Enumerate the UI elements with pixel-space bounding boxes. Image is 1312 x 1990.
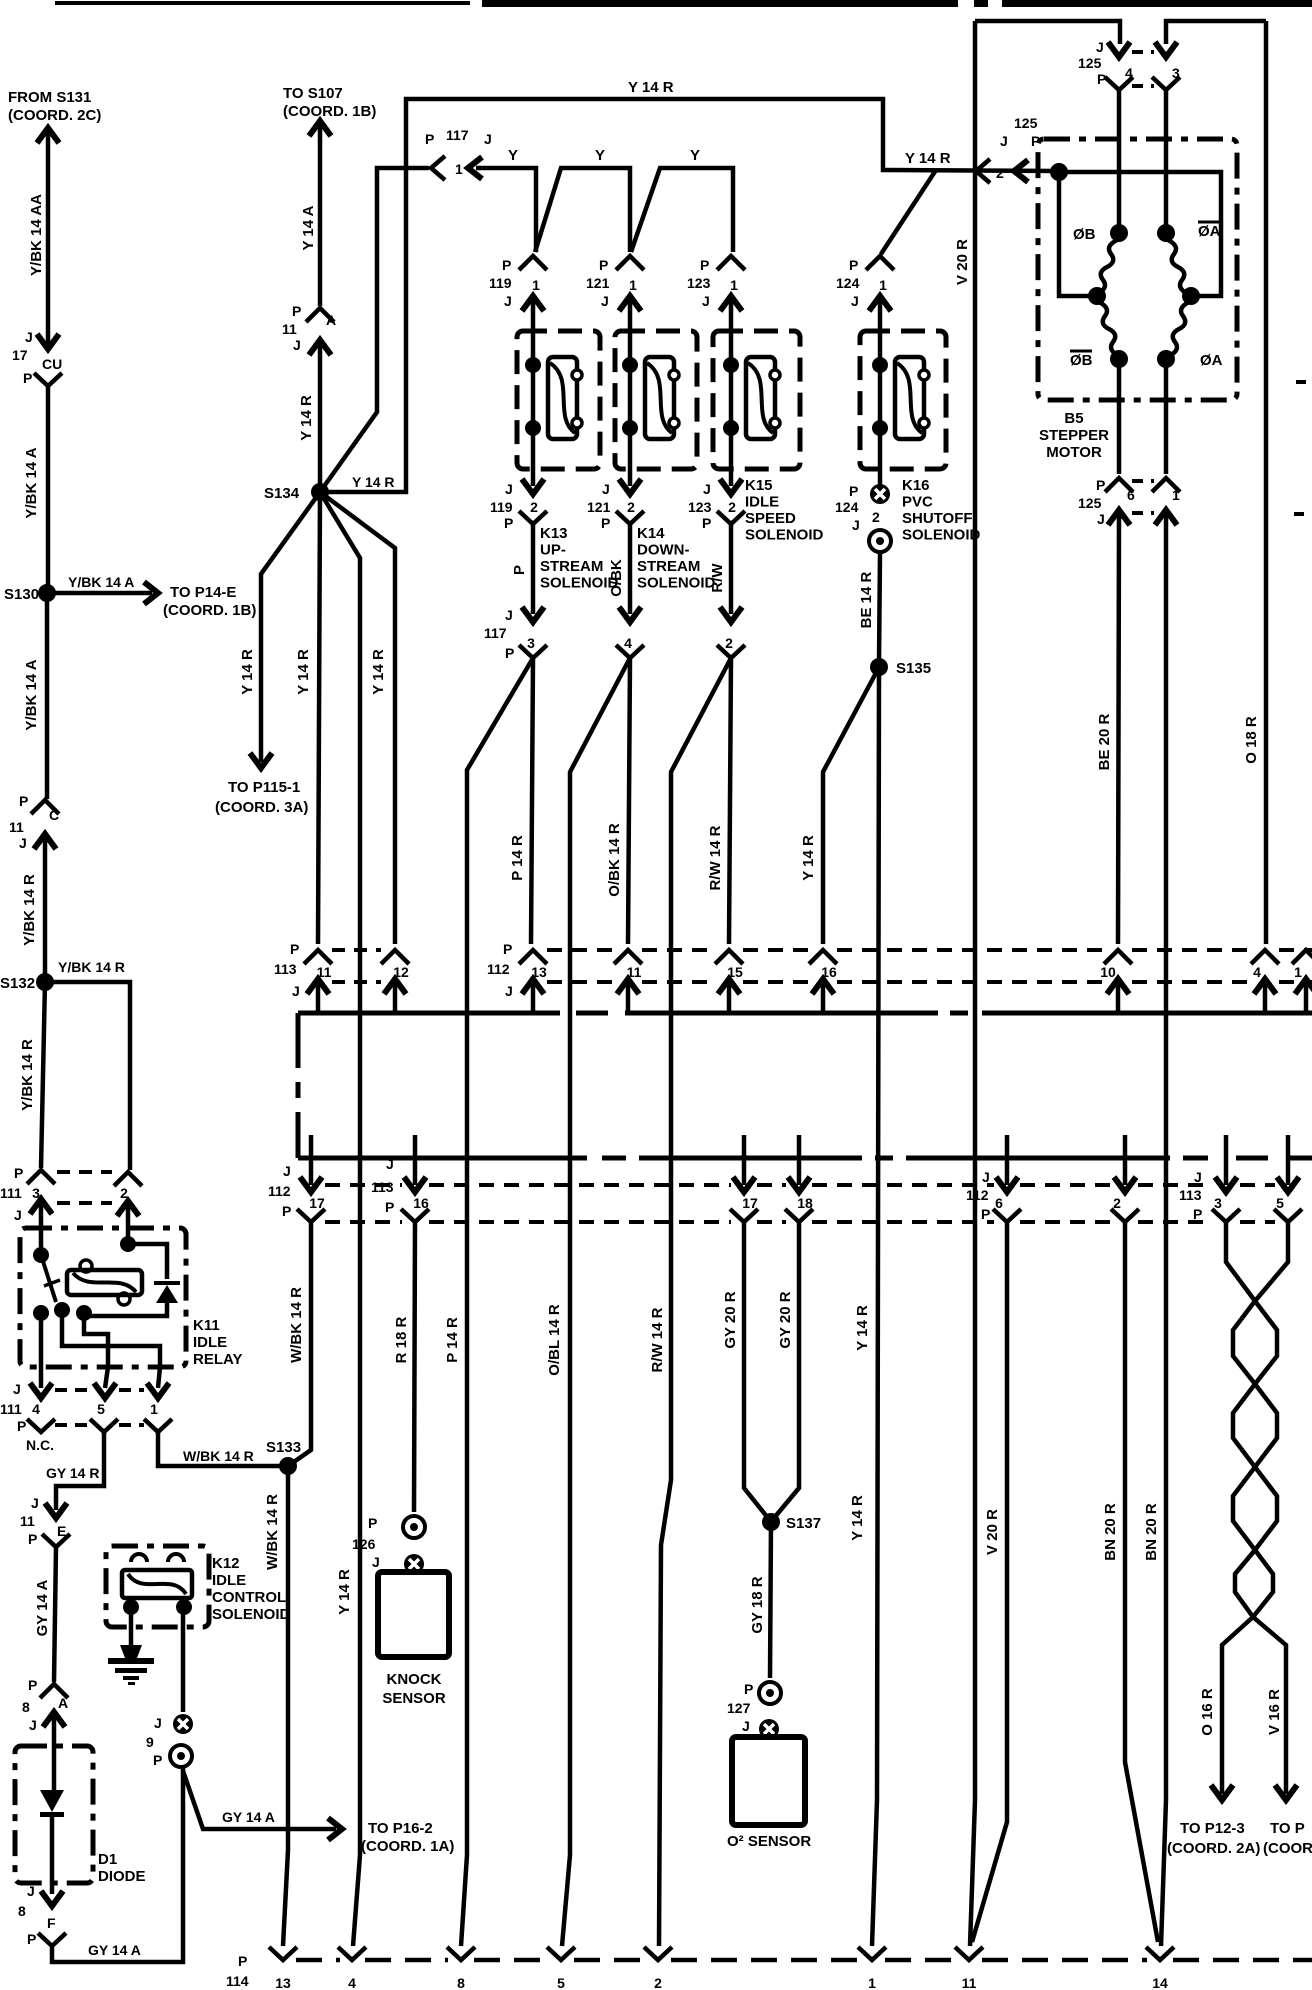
svg-text:IDLE: IDLE [193, 1334, 227, 1351]
O2 sensor box [732, 1737, 805, 1825]
ground under K12 [129, 1607, 134, 1648]
svg-text:V 16 R: V 16 R [1266, 1689, 1283, 1735]
svg-text:5: 5 [1276, 1195, 1284, 1211]
wire frame right / BN line [1166, 21, 1266, 44]
svg-text:O² SENSOR: O² SENSOR [727, 1833, 811, 1850]
svg-text:113: 113 [1179, 1187, 1202, 1203]
svg-text:11: 11 [962, 1975, 977, 1990]
wire P 14 R long to bottom pin 8 [461, 658, 533, 1946]
svg-text:W/BK 14 R: W/BK 14 R [264, 1494, 281, 1570]
svg-text:3: 3 [527, 635, 535, 651]
connector 125 pin 6 [1105, 478, 1133, 492]
svg-text:STREAM: STREAM [540, 558, 603, 575]
wire GY 14 A to P16-2 [183, 1771, 336, 1829]
svg-text:Y 14 R: Y 14 R [800, 835, 817, 881]
connector 11 C [31, 800, 59, 814]
K11 coil [67, 1270, 142, 1295]
connector 117 pin 3 [522, 607, 544, 622]
svg-text:P: P [290, 941, 299, 957]
svg-text:Y/BK 14 A: Y/BK 14 A [23, 659, 40, 730]
svg-text:P: P [1096, 477, 1105, 493]
wire R/W 14 R long to bottom pin 2 [659, 658, 731, 1946]
svg-text:J: J [484, 131, 492, 147]
connector 123 pin 2 [720, 479, 742, 494]
svg-text:J: J [1097, 511, 1105, 527]
svg-text:P: P [849, 257, 858, 273]
connector 117 pin 4 [619, 607, 641, 622]
svg-text:GY 20 R: GY 20 R [777, 1291, 794, 1348]
svg-text:121: 121 [586, 275, 610, 291]
svg-text:Y: Y [690, 147, 700, 164]
svg-text:PVC: PVC [902, 494, 933, 511]
connector 113 pins 3 5 [1224, 1135, 1229, 1185]
svg-text:P: P [511, 565, 528, 575]
svg-text:A: A [58, 1695, 68, 1711]
svg-text:UP-: UP- [540, 542, 566, 559]
svg-text:113: 113 [274, 961, 297, 977]
svg-text:K12: K12 [212, 1555, 240, 1572]
wire Y 14 R S135 to bus pin 16 [823, 671, 877, 944]
svg-text:R 18 R: R 18 R [393, 1316, 410, 1363]
svg-text:1: 1 [629, 277, 637, 293]
svg-text:J: J [703, 481, 711, 497]
connector 111 pin 5 [94, 1383, 116, 1398]
svg-text:1: 1 [879, 277, 887, 293]
connector 117 pin 2 [720, 607, 742, 622]
svg-text:119: 119 [489, 275, 512, 291]
inline connector J9 [173, 1714, 193, 1734]
svg-text:J: J [702, 293, 710, 309]
wire O/BL 14 R long to bottom pin 5 [562, 658, 630, 1946]
svg-text:J: J [602, 481, 610, 497]
stepper coil phase A [1157, 224, 1175, 242]
svg-text:J: J [19, 835, 27, 851]
dashed rows lower bus J [325, 1183, 402, 1187]
svg-text:J: J [1194, 1169, 1202, 1185]
svg-text:125: 125 [1014, 115, 1038, 131]
dashed connector row P125 [1132, 479, 1154, 483]
svg-text:Y 14 R: Y 14 R [854, 1305, 871, 1351]
bottom pin 5 [547, 1947, 575, 1960]
svg-text:(COORD. 1B): (COORD. 1B) [163, 602, 256, 619]
svg-text:IDLE: IDLE [745, 494, 779, 511]
dashed connector row P111 [57, 1170, 112, 1174]
wire Y 14 R to S134 [318, 344, 323, 490]
wire Y/BK 14 A branch to P14-E [47, 591, 152, 596]
bottom pin 8 [447, 1947, 475, 1960]
svg-text:Y/BK 14 R: Y/BK 14 R [19, 1039, 36, 1111]
svg-text:4: 4 [32, 1401, 40, 1417]
wires GY 20 R to S137 [744, 1222, 768, 1518]
bottom pin 13 [269, 1947, 297, 1960]
svg-text:R/W: R/W [709, 563, 726, 593]
wire O 18 R [1264, 21, 1269, 944]
wire Y to K13 pin 1 [476, 168, 536, 252]
K12 right pin to J9 connector [181, 1607, 186, 1712]
wire W/BK 14 R pin17 to S133 [288, 1222, 311, 1466]
svg-text:P: P [700, 257, 709, 273]
svg-text:114: 114 [226, 1973, 249, 1989]
svg-text:(COORD. 1B): (COORD. 1B) [283, 103, 376, 120]
svg-text:TO P16-2: TO P16-2 [368, 1820, 433, 1837]
svg-text:P: P [27, 1931, 36, 1947]
dashed rows lower bus P [325, 1220, 402, 1224]
svg-text:2: 2 [1113, 1195, 1121, 1211]
wire R 18 R pin16 to knock sensor [414, 1222, 415, 1512]
svg-text:SOLENOID: SOLENOID [745, 527, 824, 544]
svg-text:1: 1 [1172, 487, 1180, 503]
svg-text:GY 14 A: GY 14 A [34, 1579, 51, 1636]
wire R/W 14 R to bus pin 15 [729, 658, 731, 944]
svg-text:Y 14 R: Y 14 R [905, 150, 951, 167]
K11 internal wires and contacts [39, 1203, 44, 1255]
svg-text:1: 1 [868, 1975, 876, 1990]
svg-text:P: P [19, 793, 28, 809]
svg-text:SPEED: SPEED [745, 510, 796, 527]
svg-text:J: J [1000, 133, 1008, 149]
svg-text:5: 5 [557, 1975, 565, 1990]
svg-text:GY 14 R: GY 14 R [46, 1465, 99, 1481]
svg-text:R/W 14 R: R/W 14 R [649, 1307, 666, 1372]
svg-text:J: J [27, 1883, 35, 1899]
svg-text:GY 14 A: GY 14 A [88, 1942, 141, 1958]
svg-text:J: J [292, 983, 300, 999]
svg-text:4: 4 [1253, 964, 1261, 980]
svg-text:11: 11 [282, 321, 297, 337]
svg-text:Y 14 A: Y 14 A [300, 205, 317, 250]
svg-text:(COORD. 1A): (COORD. 1A) [361, 1838, 454, 1855]
connector 111 pin 3 [27, 1170, 55, 1184]
wire Y/BK 14 AA from S131 [46, 130, 51, 344]
svg-text:ØB: ØB [1073, 226, 1096, 243]
wire P 14 R to bus pin 13 [531, 658, 533, 944]
connector 113 pin 16 [413, 1135, 418, 1185]
svg-text:BN 20 R: BN 20 R [1143, 1503, 1160, 1561]
wire Y 14 R TO P115-1 [261, 492, 320, 762]
svg-text:117: 117 [484, 625, 507, 641]
right edge marks [1296, 380, 1306, 384]
wire GY 18 R to O2 sensor [770, 1522, 771, 1678]
svg-text:8: 8 [457, 1975, 465, 1990]
connector 113 pins 10 4 right [1104, 950, 1132, 964]
svg-text:MOTOR: MOTOR [1046, 444, 1102, 461]
svg-text:O 18 R: O 18 R [1243, 716, 1260, 764]
dashed row P112 [547, 948, 614, 952]
svg-text:2: 2 [627, 499, 635, 515]
solenoid K14 [615, 331, 697, 469]
connector 125 pin 3 [1155, 42, 1177, 57]
svg-text:S134: S134 [264, 485, 300, 502]
svg-text:6: 6 [1127, 487, 1135, 503]
bottom pin 1 [858, 1947, 886, 1960]
svg-text:P: P [23, 370, 32, 386]
svg-text:4: 4 [624, 635, 632, 651]
svg-text:J: J [386, 1156, 394, 1172]
connector 11 A [306, 308, 334, 322]
svg-text:K14: K14 [637, 525, 665, 542]
svg-text:2: 2 [530, 499, 538, 515]
svg-text:GY 14 A: GY 14 A [222, 1809, 275, 1825]
svg-text:P: P [368, 1515, 377, 1531]
svg-text:P 14 R: P 14 R [444, 1317, 461, 1363]
svg-text:(COORD. 2C): (COORD. 2C) [8, 107, 101, 124]
svg-text:STEPPER: STEPPER [1039, 427, 1109, 444]
svg-text:K16: K16 [902, 477, 930, 494]
svg-text:1: 1 [455, 161, 463, 177]
knock sensor box [378, 1572, 449, 1657]
svg-text:W/BK 14 R: W/BK 14 R [288, 1287, 305, 1363]
svg-text:8: 8 [18, 1903, 26, 1919]
svg-text:9: 9 [146, 1734, 154, 1750]
svg-text:J: J [293, 337, 301, 353]
solenoid K16 [860, 331, 946, 469]
svg-text:J: J [1096, 39, 1104, 55]
bottom pin 14 [1146, 1947, 1174, 1960]
connector 112 pin 17 [309, 1135, 314, 1185]
jumper bus line 1 [298, 1011, 560, 1016]
svg-text:J: J [31, 1495, 39, 1511]
svg-text:Y 14 R: Y 14 R [352, 474, 395, 490]
svg-text:A: A [326, 312, 336, 328]
connector 111 pin 1 [147, 1383, 169, 1398]
solenoid K15 [713, 331, 800, 469]
svg-text:J: J [852, 517, 860, 533]
svg-text:P: P [28, 1531, 37, 1547]
svg-text:112: 112 [487, 961, 510, 977]
svg-text:S137: S137 [786, 1515, 821, 1532]
wire Y 14 R S134 to bus pin 12 [320, 492, 395, 944]
wire Y/BK 14 R to S132 [43, 838, 48, 982]
svg-text:IDLE: IDLE [212, 1572, 246, 1589]
svg-text:1: 1 [150, 1401, 158, 1417]
wire W/BK 14 R S133 to bottom pin 13 [283, 1466, 288, 1946]
svg-text:Y: Y [508, 147, 518, 164]
wire R/W K15 pin2 to pin 2 [729, 524, 734, 614]
node S134 [311, 483, 329, 501]
svg-text:125: 125 [1078, 495, 1102, 511]
bottom pin 11 [955, 1947, 983, 1960]
svg-text:CONTROL: CONTROL [212, 1589, 286, 1606]
solenoid K12 box [106, 1546, 209, 1627]
svg-text:BE 20 R: BE 20 R [1096, 713, 1113, 770]
knock sensor connector 126 [403, 1516, 425, 1538]
svg-text:ØA: ØA [1200, 352, 1223, 369]
svg-text:SENSOR: SENSOR [382, 1690, 446, 1707]
svg-text:8: 8 [22, 1699, 30, 1715]
svg-text:Y/BK 14 AA: Y/BK 14 AA [28, 194, 45, 276]
K12 coil [122, 1570, 192, 1598]
stepper coil phase B [1110, 224, 1128, 242]
svg-text:J: J [505, 983, 513, 999]
dashed connector row J111 [55, 1388, 91, 1392]
arrow TO P (cut) [1275, 1785, 1297, 1800]
svg-text:S135: S135 [896, 660, 931, 677]
svg-text:Y 14 R: Y 14 R [239, 649, 256, 695]
wire P K13 pin2 to 117-3 [531, 524, 536, 614]
dashed connector row J125 [1132, 50, 1154, 54]
relay K11 box [20, 1228, 186, 1367]
svg-text:J: J [25, 329, 33, 345]
wire Y 14 R S135 long to bottom pin 1 [872, 667, 879, 1946]
svg-text:1: 1 [730, 277, 738, 293]
svg-text:J: J [505, 481, 513, 497]
svg-text:TO P115-1: TO P115-1 [228, 779, 300, 796]
connector 121 pin 2 [619, 479, 641, 494]
connector 111 pin 4 N.C. [30, 1383, 52, 1398]
svg-text:STREAM: STREAM [637, 558, 700, 575]
svg-text:P: P [17, 1418, 26, 1434]
svg-text:J: J [851, 293, 859, 309]
wire BN 20 R pin2 to bottom pin 14 [1125, 1222, 1158, 1942]
svg-text:P: P [849, 483, 858, 499]
svg-text:(COORD. 2A): (COORD. 2A) [1167, 1840, 1260, 1857]
svg-text:W/BK 14 R: W/BK 14 R [183, 1448, 254, 1464]
svg-text:ØA: ØA [1198, 223, 1221, 240]
connector 113 pins 11 12 [304, 950, 332, 964]
node S137 [762, 1513, 780, 1531]
svg-text:124: 124 [835, 499, 859, 515]
svg-text:P: P [504, 515, 513, 531]
svg-text:SHUTOFF: SHUTOFF [902, 510, 973, 527]
K11 diode [128, 1244, 167, 1279]
svg-text:K15: K15 [745, 477, 773, 494]
svg-text:Y/BK 14 R: Y/BK 14 R [58, 959, 125, 975]
svg-text:P: P [503, 941, 512, 957]
svg-text:2: 2 [725, 635, 733, 651]
wire Y/BK 14 R to K11 pin 3 [41, 982, 45, 1168]
svg-text:J: J [283, 1163, 291, 1179]
wire Y link K13-K14 [535, 168, 630, 252]
svg-text:TO P14-E: TO P14-E [170, 584, 236, 601]
svg-text:O 16 R: O 16 R [1199, 1688, 1216, 1736]
svg-text:117: 117 [446, 127, 469, 143]
connector 111 pin 2 [114, 1172, 142, 1186]
svg-text:V 20 R: V 20 R [984, 1509, 1001, 1555]
wire W/BK 14 R from K11 pin 1 [158, 1432, 283, 1466]
svg-text:O/BK: O/BK [608, 559, 625, 597]
wire Y/BK 14 A to S130 [46, 386, 51, 590]
svg-text:KNOCK: KNOCK [387, 1671, 442, 1688]
svg-text:J: J [742, 1718, 750, 1734]
svg-text:N.C.: N.C. [26, 1437, 54, 1453]
wire GY 14 R pin5 to connector E [56, 1432, 104, 1510]
svg-text:SOLENOID: SOLENOID [637, 575, 716, 592]
svg-text:CU: CU [42, 356, 62, 372]
connector pins 17 18 GY [742, 1135, 747, 1185]
wire Y/BK 14 R branch to K11 pin 2 [45, 982, 130, 1170]
solenoid K13 [517, 331, 600, 469]
svg-text:TO S107: TO S107 [283, 85, 343, 102]
svg-text:P: P [502, 257, 511, 273]
svg-text:P: P [601, 515, 610, 531]
node S135 [870, 658, 888, 676]
connector 124 pin 1 [866, 256, 894, 270]
svg-text:J: J [13, 1381, 21, 1397]
svg-text:13: 13 [275, 1975, 291, 1990]
svg-text:SOLENOID: SOLENOID [212, 1606, 291, 1623]
wire BE 20 R to bus pin 10 [1118, 514, 1119, 944]
svg-text:Y/BK 14 A: Y/BK 14 A [23, 447, 40, 518]
wire Y 14 R S134 to P117 [320, 168, 429, 492]
diode D1 [40, 1790, 64, 1812]
connector 125 pin 4 [1108, 42, 1130, 57]
svg-text:P: P [238, 1953, 247, 1969]
wire Y 14 R S134 to bus pin 11 [318, 492, 320, 944]
svg-text:Y 14 R: Y 14 R [370, 649, 387, 695]
connector 8 A [40, 1684, 68, 1698]
top border bar [55, 1, 470, 5]
connector 8 F [41, 1891, 63, 1906]
connector 121 pin 1 [616, 256, 644, 270]
svg-text:K11: K11 [193, 1317, 220, 1334]
O2 sensor connector 127 [759, 1682, 781, 1704]
svg-text:O/BL 14 R: O/BL 14 R [546, 1304, 563, 1376]
svg-text:1: 1 [532, 277, 540, 293]
connector 119 pin 2 [522, 479, 544, 494]
svg-text:11: 11 [20, 1513, 35, 1529]
svg-text:C: C [49, 807, 59, 823]
svg-text:Y/BK 14 A: Y/BK 14 A [68, 574, 134, 590]
svg-text:P: P [981, 1206, 990, 1222]
svg-text:(COOR: (COOR [1263, 1840, 1312, 1857]
svg-text:BE 14 R: BE 14 R [858, 571, 875, 628]
svg-text:127: 127 [727, 1700, 751, 1716]
connector 124 pin 2 inline connectors [870, 484, 890, 504]
svg-text:3: 3 [1214, 1195, 1222, 1211]
svg-text:P: P [14, 1165, 23, 1181]
connector 112 pins 13 11 15 16 [519, 950, 547, 964]
svg-text:RELAY: RELAY [193, 1351, 242, 1368]
svg-text:Y: Y [595, 147, 605, 164]
svg-text:111: 111 [0, 1401, 22, 1417]
svg-text:P: P [292, 303, 301, 319]
svg-text:(COORD. 3A): (COORD. 3A) [215, 799, 308, 816]
svg-text:5: 5 [97, 1401, 105, 1417]
wire O/BK 14 R to bus pin 11 [628, 658, 630, 944]
svg-text:SOLENOID: SOLENOID [540, 575, 619, 592]
svg-text:B5: B5 [1064, 410, 1083, 427]
wire O/BK K14 pin2 to pin 4 [628, 524, 633, 614]
wire BN 20 R pass-through to bottom pin 14 [1161, 514, 1166, 1946]
wire Y 14 A TO S107 [318, 124, 323, 306]
svg-text:P: P [702, 515, 711, 531]
wire GY 14 A to connector A [54, 1547, 56, 1682]
svg-text:6: 6 [995, 1195, 1003, 1211]
connector 125 pin 1 [1152, 478, 1180, 492]
svg-text:R/W 14 R: R/W 14 R [707, 825, 724, 890]
svg-text:J: J [154, 1715, 162, 1731]
svg-text:V 20 R: V 20 R [954, 239, 971, 285]
svg-text:J: J [372, 1554, 380, 1570]
stepper motor B5 box [1038, 139, 1237, 400]
svg-text:2: 2 [654, 1975, 662, 1990]
svg-text:119: 119 [490, 499, 513, 515]
node S130 [38, 584, 56, 602]
svg-text:J: J [29, 1717, 37, 1733]
svg-text:ØB: ØB [1070, 352, 1093, 369]
svg-text:4: 4 [348, 1975, 356, 1990]
svg-text:J: J [14, 1207, 22, 1223]
wire Y link K14-K15 [631, 168, 733, 252]
svg-text:112: 112 [966, 1187, 989, 1203]
svg-text:J: J [601, 293, 609, 309]
svg-text:P 14 R: P 14 R [509, 835, 526, 881]
svg-text:124: 124 [836, 275, 860, 291]
svg-text:GY 20 R: GY 20 R [722, 1291, 739, 1348]
dashed row P113 [332, 948, 381, 952]
node S133 [279, 1457, 297, 1475]
svg-text:J: J [504, 293, 512, 309]
